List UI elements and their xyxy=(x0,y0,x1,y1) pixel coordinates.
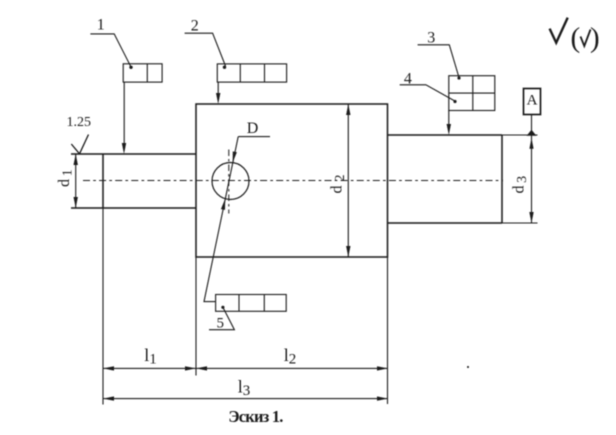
svg-text:d2: d2 xyxy=(329,175,349,194)
svg-text:D: D xyxy=(247,120,259,137)
svg-text:d3: d3 xyxy=(511,176,531,194)
svg-text:2: 2 xyxy=(191,18,199,35)
svg-text:l2: l2 xyxy=(284,345,297,368)
svg-text:1.25: 1.25 xyxy=(67,115,92,130)
svg-text:(: ( xyxy=(571,22,581,54)
svg-text:5: 5 xyxy=(216,316,224,332)
svg-text:Эскиз 1.: Эскиз 1. xyxy=(228,407,283,426)
svg-text:A: A xyxy=(527,93,538,109)
svg-text:l3: l3 xyxy=(238,377,251,400)
svg-text:): ) xyxy=(590,22,600,54)
svg-text:1: 1 xyxy=(97,17,105,34)
svg-text:d1: d1 xyxy=(56,169,76,187)
svg-text:3: 3 xyxy=(427,29,435,46)
svg-text:4: 4 xyxy=(404,71,412,88)
svg-text:l1: l1 xyxy=(144,345,157,368)
